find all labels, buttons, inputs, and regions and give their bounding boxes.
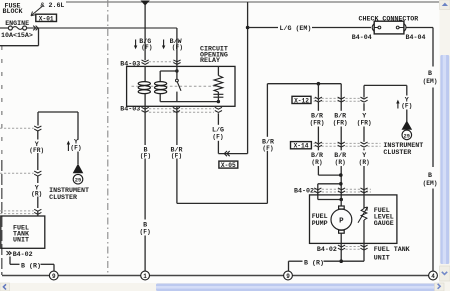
svg-text:CLUSTER: CLUSTER xyxy=(383,148,411,156)
connector row X-12 xyxy=(292,96,368,104)
instrument cluster symbol left xyxy=(73,164,84,185)
wire pump to B(R) junction xyxy=(340,243,342,261)
svg-text:UNIT: UNIT xyxy=(374,254,390,262)
label B (R) left xyxy=(21,261,41,269)
arrow to 2.6L xyxy=(31,7,42,16)
svg-text:X-05: X-05 xyxy=(221,162,236,169)
wire to right instrument cluster xyxy=(406,110,408,122)
main feed wire from fuse block xyxy=(0,27,177,29)
label B (F) xyxy=(140,145,151,159)
wire Y (FR) left col xyxy=(37,131,39,170)
svg-text:9: 9 xyxy=(286,273,290,280)
wire B/R branch 1 down xyxy=(317,84,319,175)
wire B/W vertical from feed corner xyxy=(176,28,178,66)
wire L/G riser up to top xyxy=(247,2,249,154)
svg-text:GAUGE: GAUGE xyxy=(374,219,394,227)
label B/R (R) branch1 xyxy=(311,151,323,166)
label B (EM) lower xyxy=(423,171,438,187)
node: B(R) junction xyxy=(339,259,343,263)
wire B/G vertical xyxy=(144,5,146,60)
svg-text:B4-03: B4-03 xyxy=(120,104,140,112)
node: pin split junction xyxy=(339,182,343,186)
wire to left instrument cluster xyxy=(77,152,79,165)
connector row X-14 xyxy=(291,142,381,150)
svg-text:B4-04: B4-04 xyxy=(406,33,426,41)
node: jog junction xyxy=(339,173,343,177)
svg-text:B: B xyxy=(428,171,432,179)
connector B4-02 (left) xyxy=(6,250,32,258)
svg-text:Y: Y xyxy=(362,151,366,159)
svg-text:L/G: L/G xyxy=(212,126,224,134)
svg-text:B/R: B/R xyxy=(334,151,346,159)
connector chevrons X-05 xyxy=(224,151,229,156)
wire gauge to B(R) junction xyxy=(341,243,364,261)
wire B/R (F) relay output down xyxy=(176,106,178,203)
fuse block label xyxy=(3,2,30,28)
label B/G (F) with down arrow xyxy=(134,37,153,51)
svg-text:FUEL TANK: FUEL TANK xyxy=(374,245,410,253)
svg-text:4: 4 xyxy=(431,273,435,280)
fuel tank unit box (left) xyxy=(1,216,45,248)
svg-text:Y: Y xyxy=(362,112,366,120)
label FUEL TANK UNIT (right) xyxy=(374,245,410,262)
svg-text:(R): (R) xyxy=(359,159,370,166)
connector chevrons on feed wire xyxy=(33,26,38,31)
svg-text:UNIT: UNIT xyxy=(13,235,29,243)
wire B (R) left section xyxy=(10,257,54,272)
top page border xyxy=(66,1,439,3)
svg-text:10A<15A>: 10A<15A> xyxy=(1,31,33,39)
connector box X-05 xyxy=(219,161,238,169)
svg-text:PUMP: PUMP xyxy=(312,219,328,227)
relay box U1 xyxy=(127,66,235,106)
label FUEL LEVEL GAUGE xyxy=(374,206,394,227)
connector row B4-02 (pump bottom) xyxy=(317,245,368,253)
svg-text:29: 29 xyxy=(404,133,410,139)
left page edge dash line xyxy=(1,46,3,275)
connector row above fuel tank unit (left) xyxy=(0,209,41,216)
off-page arrow (B/G wire, top) xyxy=(141,1,150,6)
label L/G (EM) xyxy=(280,24,312,32)
connector box X-01 xyxy=(36,14,57,22)
svg-text:(EM): (EM) xyxy=(423,180,438,187)
wire L/G (F) from relay resistor xyxy=(217,113,219,153)
svg-text:(FR): (FR) xyxy=(357,120,372,127)
wire across to riser xyxy=(177,202,268,204)
label B/R (FR) branch1 xyxy=(310,112,325,127)
wire relay internal bottom bus xyxy=(160,101,218,103)
fuse rating label xyxy=(1,31,33,39)
label Y (FR) left xyxy=(29,140,44,154)
svg-text:B: B xyxy=(143,221,147,229)
ground node 4 xyxy=(429,271,438,280)
wire B (EM) riser down right side xyxy=(432,28,434,272)
section divider dash-dot line xyxy=(107,0,109,275)
check connector xyxy=(372,21,406,34)
node: coil2/switch junction xyxy=(175,69,178,72)
svg-text:29: 29 xyxy=(75,178,81,184)
svg-text:B/R: B/R xyxy=(311,151,323,159)
instrument cluster symbol right xyxy=(402,121,413,140)
horizontal scrollbar xyxy=(0,283,450,291)
wire B (F): coil1 to ground bus xyxy=(144,106,146,271)
svg-text:X-14: X-14 xyxy=(294,143,309,150)
engine variant label 2.6L xyxy=(41,1,65,9)
relay switch S1 xyxy=(176,66,182,101)
svg-text:B (R): B (R) xyxy=(304,258,324,266)
svg-text:L/G (EM): L/G (EM) xyxy=(280,24,312,32)
label B4-04 right xyxy=(406,33,426,41)
wire L/G (EM) to check connector xyxy=(248,27,371,29)
fuse block box outline xyxy=(0,28,39,46)
svg-text:BLOCK: BLOCK xyxy=(3,7,23,15)
label B/R (F) xyxy=(171,145,183,159)
connector on Y wire (left col) xyxy=(0,126,41,131)
svg-text:(FR): (FR) xyxy=(29,147,44,154)
svg-text:1: 1 xyxy=(143,273,147,280)
label L/G (F) xyxy=(212,126,224,141)
wire B (R) right section xyxy=(289,261,342,271)
relay mechanical link (dashed) xyxy=(132,85,217,87)
circuit opening relay label xyxy=(200,45,228,64)
svg-text:(F): (F) xyxy=(141,44,152,51)
label B/R (FR) branch2 xyxy=(333,112,348,127)
node: splice to X-12 left pin xyxy=(317,82,321,86)
vertical scrollbar xyxy=(440,0,450,283)
svg-text:B4-02: B4-02 xyxy=(294,187,314,195)
label FUEL PUMP xyxy=(312,212,328,227)
wire left pin to pump node xyxy=(318,199,341,201)
label Y (F) with up arrow (left cluster) xyxy=(67,137,82,151)
fuel tank unit box (right) xyxy=(310,195,397,244)
label Y (R) left xyxy=(31,183,42,197)
fuel pump motor M1 xyxy=(331,200,352,244)
connector row B4-03 bottom xyxy=(120,104,222,112)
wire B/R branch 2 down xyxy=(340,84,342,200)
fuse 10A xyxy=(8,26,26,30)
svg-text:CLUSTER: CLUSTER xyxy=(49,193,77,201)
svg-text:B4-02: B4-02 xyxy=(317,245,337,253)
check connector label xyxy=(359,15,419,23)
svg-text:B4-04: B4-04 xyxy=(352,33,372,41)
label B (R) right xyxy=(304,258,324,266)
wire splice bar to X-12 branches xyxy=(267,83,341,85)
wire coil2 top to switch xyxy=(160,70,177,72)
label FUEL TANK UNIT (left) xyxy=(13,223,29,243)
svg-text:P: P xyxy=(339,218,344,226)
node: resistor bottom junction xyxy=(217,100,220,103)
svg-text:(F): (F) xyxy=(401,103,412,110)
wire Y top bar (right cluster) xyxy=(364,85,407,97)
svg-text:(F): (F) xyxy=(140,229,151,236)
svg-text:(R): (R) xyxy=(335,159,346,166)
connector on Y wire row 2 (left col) xyxy=(0,171,41,176)
label INSTRUMENT CLUSTER right xyxy=(383,141,423,156)
ground node 9 left xyxy=(49,271,58,280)
wire check connector to right riser xyxy=(407,27,434,29)
wire Y (R) left col xyxy=(37,176,39,208)
svg-text:X-01: X-01 xyxy=(39,15,54,22)
wire branch1 jog to branch2 xyxy=(318,174,340,176)
svg-text:B/R: B/R xyxy=(334,112,346,120)
connector row B4-02 (pump top) xyxy=(294,187,371,195)
fuel level gauge sender (variable resistor) xyxy=(358,103,368,243)
svg-text:& 2.6L: & 2.6L xyxy=(41,1,65,9)
svg-text:(EM): (EM) xyxy=(423,78,438,85)
wire pin split to left pin xyxy=(318,184,341,200)
svg-text:B (R): B (R) xyxy=(21,261,41,269)
svg-text:B4-02: B4-02 xyxy=(13,250,33,258)
svg-text:(F): (F) xyxy=(140,152,151,159)
label B/R (F) on riser xyxy=(262,138,274,152)
svg-text:(F): (F) xyxy=(70,145,81,152)
svg-text:(R): (R) xyxy=(311,159,322,166)
label B4-04 left xyxy=(352,33,372,41)
label INSTRUMENT CLUSTER left xyxy=(49,186,89,201)
svg-text:B: B xyxy=(428,69,432,77)
label Y (F) with up arrow (right cluster) xyxy=(396,95,412,109)
relay coil L1 xyxy=(138,66,150,106)
svg-text:(F): (F) xyxy=(212,133,223,140)
ground bus line xyxy=(2,275,433,277)
wire B/R (F) riser up xyxy=(266,84,268,204)
wire L/G bottom jog xyxy=(218,153,247,155)
label B/R (R) branch2 xyxy=(334,151,346,166)
connector row B4-03 top xyxy=(120,59,180,67)
svg-text:(FR): (FR) xyxy=(310,120,325,127)
svg-text:(F): (F) xyxy=(262,145,273,152)
ground node 1 xyxy=(141,271,150,280)
relay resistor R1 xyxy=(213,66,223,101)
node: pump feed junction xyxy=(339,198,343,202)
svg-text:B/R: B/R xyxy=(311,112,323,120)
node: L/G (EM) branch xyxy=(246,26,250,30)
relay coil L2 xyxy=(155,71,167,102)
svg-text:(F): (F) xyxy=(171,152,182,159)
label Y (FR) right xyxy=(357,112,372,127)
svg-text:9: 9 xyxy=(52,273,56,280)
svg-text:RELAY: RELAY xyxy=(200,56,220,64)
ground node 9 right xyxy=(284,271,293,280)
left sub-circuit top wire xyxy=(38,112,78,140)
label B (EM) upper xyxy=(423,69,438,85)
label B (F) lower xyxy=(140,221,151,236)
label Y (R) right xyxy=(359,151,370,166)
label B/W (F) with down arrow xyxy=(162,37,183,51)
svg-text:X-12: X-12 xyxy=(294,97,309,104)
svg-text:(FR): (FR) xyxy=(333,120,348,127)
svg-text:(R): (R) xyxy=(31,191,42,198)
